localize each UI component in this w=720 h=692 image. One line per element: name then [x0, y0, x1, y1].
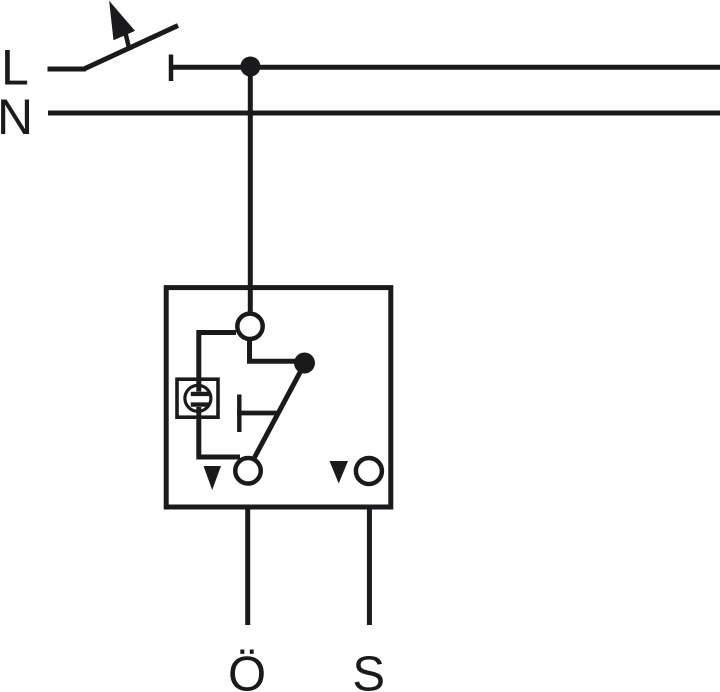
- wire vertical drop from L junction to box: [248, 67, 253, 312]
- wire lower-left branch from lamp to bottom terminal: [199, 407, 240, 457]
- glow lamp square frame: [177, 379, 218, 417]
- glow lamp electrode top: [191, 392, 210, 396]
- wire from top terminal to pivot: [250, 340, 303, 361]
- svg-text:S: S: [352, 648, 385, 692]
- wire N bus: [48, 111, 720, 116]
- terminal circle bottom Ö: [235, 458, 261, 484]
- terminal circle right S: [356, 458, 382, 484]
- terminal circle top: [237, 314, 262, 339]
- pivot dot: [294, 353, 315, 374]
- junction dot on L: [240, 57, 260, 77]
- switch S1 fixed contact tick: [169, 55, 174, 82]
- glow lamp circle: [185, 385, 211, 411]
- glow lamp electrode bottom: [191, 402, 210, 406]
- switch S1 actuation arrow: [109, 1, 135, 41]
- wire L bus to right edge: [171, 65, 720, 70]
- switch S1 lever: [85, 26, 178, 69]
- svg-text:L: L: [1, 40, 29, 96]
- svg-text:Ö: Ö: [228, 648, 266, 692]
- wire terminal Ö down: [245, 510, 250, 626]
- box: device outline: [166, 288, 391, 507]
- wire L feed from label: [48, 67, 87, 72]
- switch S1 arrow tail: [126, 33, 130, 48]
- contact lever inside box: [255, 363, 306, 458]
- arrow marker right: [330, 461, 349, 484]
- wire upper-left branch to lamp: [199, 333, 236, 392]
- arrow marker left: [204, 466, 222, 490]
- wire terminal S down: [367, 510, 372, 626]
- actuator plunger horizontal: [237, 411, 277, 416]
- svg-text:N: N: [0, 89, 33, 145]
- actuator plunger vertical: [237, 395, 241, 433]
